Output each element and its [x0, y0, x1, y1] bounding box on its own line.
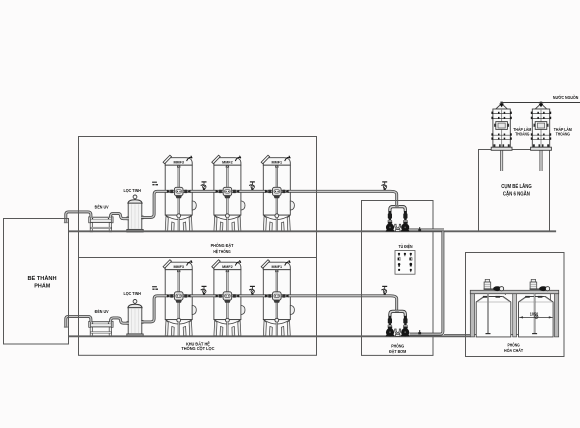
left support post: [470, 294, 474, 337]
mixer motor 2: [530, 288, 540, 290]
fine filter top row: [127, 195, 143, 232]
mixer motor 1: [484, 288, 494, 290]
bottom pump set: [386, 310, 410, 336]
bottom row main pipe: [141, 296, 397, 322]
right support post: [555, 294, 559, 337]
filter tank MMF2 top row body: [212, 155, 245, 231]
svg-text:THOÁNG: THOÁNG: [556, 131, 570, 137]
divider between system room and filter area: [79, 257, 317, 259]
UV lamp top row: [89, 217, 113, 232]
product tank inlet end flare top: [64, 222, 68, 223]
bottom row pipe UV to product tank: [66, 316, 91, 327]
svg-text:PHẨM: PHẨM: [34, 282, 50, 289]
product water tank box: [4, 219, 69, 345]
raw water feed line: [501, 102, 580, 104]
suction drop pipe to bottom pumps: [410, 231, 443, 334]
svg-text:ĐÈN UV: ĐÈN UV: [95, 309, 109, 314]
svg-text:MMF3: MMF3: [173, 265, 183, 269]
valve MMF2 top: [216, 187, 240, 198]
svg-text:TỦ ĐIỆN: TỦ ĐIỆN: [399, 243, 413, 249]
dosing pump 1: [493, 286, 501, 291]
mixer shaft 2: [534, 294, 536, 334]
svg-text:THỐNG CỘT LỌC: THỐNG CỘT LỌC: [181, 346, 214, 351]
product tank inlet end flare bottom: [64, 326, 68, 327]
upper floor line: [69, 230, 556, 232]
valve MMF2 bottom: [216, 292, 240, 303]
chemical tank 1: [476, 297, 511, 337]
valve MMF1 bottom: [265, 292, 289, 303]
svg-text:HÓA CHẤT: HÓA CHẤT: [504, 347, 524, 352]
fine filter bottom row: [127, 300, 143, 337]
svg-text:LỌC TINH: LỌC TINH: [123, 291, 141, 296]
sampling valve between MMF3-MMF2 bottom: [201, 286, 207, 295]
chemical dosing line to pump suction: [444, 291, 550, 335]
svg-text:BỂ THÀNH: BỂ THÀNH: [27, 275, 56, 282]
svg-text:ĐẶT BƠM: ĐẶT BƠM: [389, 349, 407, 354]
chemical tank 2: [519, 297, 554, 337]
lower floor line: [69, 335, 471, 337]
pump suction stub top: [408, 228, 445, 231]
svg-text:NƯỚC NGUỒN: NƯỚC NGUỒN: [553, 95, 578, 101]
chemical room box: [466, 253, 565, 357]
chemical room interior: [470, 279, 558, 337]
filter tank MMF3 bottom row body: [163, 260, 196, 336]
aeration tower 2: [531, 102, 552, 151]
svg-text:MMF1: MMF1: [272, 265, 282, 269]
valve MMF1 top: [265, 187, 289, 198]
svg-text:ĐÈN UV: ĐÈN UV: [95, 204, 109, 209]
floor fitting near top pumps: [418, 227, 421, 231]
pump room box: [362, 201, 434, 356]
top row main pipe: fine filter to pumps: [141, 191, 397, 217]
top pump set: [386, 205, 410, 231]
svg-text:CẶN 6 NGĂN: CẶN 6 NGĂN: [503, 190, 530, 198]
bottom row pipe UV to fine filter: [111, 318, 129, 323]
middle support post: [513, 294, 517, 337]
filter tank MMF1 bottom row body: [261, 260, 294, 336]
filter tank MMF2 bottom row body: [212, 260, 245, 336]
dosing pump 2: [539, 286, 547, 291]
svg-text:1050: 1050: [530, 311, 539, 316]
chemical dosing pump 1 outlet curve: [502, 291, 506, 295]
valve MMF3 top: [167, 187, 191, 198]
svg-text:MMF3: MMF3: [173, 160, 183, 164]
valve MMF3 bottom: [167, 292, 191, 303]
filter tank MMF3 top row body: [163, 155, 196, 231]
vent marks near bottom riser elbow: [152, 286, 158, 290]
system room outer box: [79, 137, 317, 356]
top row pipe UV to fine filter: [111, 213, 129, 218]
sampling valve at bottom pump discharge: [381, 286, 387, 295]
filter tank MMF1 top row body: [261, 155, 294, 231]
electrical cabinet: [395, 251, 415, 275]
tank neck mounts: [483, 296, 542, 298]
tank shoulder inner lines: [477, 297, 552, 303]
top row pipe UV to product tank: [66, 212, 91, 223]
shelf: [470, 290, 558, 293]
aeration tower 1: [491, 102, 512, 151]
svg-text:MMF2: MMF2: [222, 160, 232, 164]
sampling valve at top pump discharge: [381, 181, 387, 190]
svg-text:THOÁNG: THOÁNG: [515, 131, 529, 137]
sampling valve between MMF3-MMF2 top: [201, 181, 207, 190]
svg-text:HỆ THỐNG: HỆ THỐNG: [213, 248, 230, 254]
sampling valve between MMF2-MMF1 bottom: [249, 286, 255, 295]
floor fitting near bottom pumps: [418, 330, 421, 334]
sedimentation tank box: [479, 150, 550, 232]
svg-text:MMF2: MMF2: [222, 265, 232, 269]
aeration tower 2 down pipe: [540, 150, 543, 171]
mixer shaft 1: [487, 294, 489, 334]
vent marks near top riser elbow: [152, 182, 158, 186]
svg-text:LỌC TINH: LỌC TINH: [123, 188, 141, 193]
sampling valve between MMF2-MMF1 top: [249, 181, 255, 190]
UV lamp bottom row: [89, 321, 113, 336]
dimension arrow in tank 2: [519, 316, 552, 318]
svg-text:CỤM BỂ LẮNG: CỤM BỂ LẮNG: [501, 181, 532, 190]
aeration tower 1 down pipe: [500, 150, 503, 171]
svg-text:MMF1: MMF1: [272, 160, 282, 164]
